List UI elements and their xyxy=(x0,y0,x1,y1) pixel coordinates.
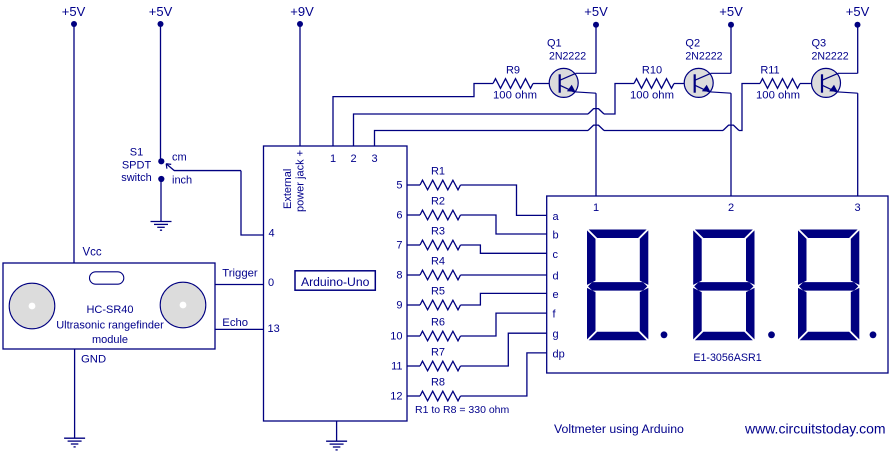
svg-text:1: 1 xyxy=(330,153,336,165)
+5V terminal dot (module Vcc rail) xyxy=(71,21,77,27)
wire Arduino to R5 xyxy=(407,304,420,306)
wire +9V to Arduino power jack xyxy=(299,24,301,146)
svg-text:R5: R5 xyxy=(431,286,445,298)
wire R1 to display segment a xyxy=(461,185,547,215)
svg-text:SPDT: SPDT xyxy=(122,160,152,172)
switch S1 cm contact dot xyxy=(158,158,164,164)
svg-text:R11: R11 xyxy=(760,65,779,77)
module right transducer xyxy=(160,282,206,328)
display digit 2 decimal point xyxy=(768,331,775,338)
wire R6 to display segment f xyxy=(461,313,547,336)
resistor R6 xyxy=(420,331,461,341)
svg-text:b: b xyxy=(553,230,559,242)
wire R8 to display segment dp xyxy=(461,353,547,396)
svg-text:9: 9 xyxy=(396,300,402,312)
wire Arduino to R2 xyxy=(407,214,420,216)
+9V terminal dot xyxy=(297,21,303,27)
resistor R9 xyxy=(493,79,533,89)
svg-text:S1: S1 xyxy=(130,146,143,158)
svg-text:module: module xyxy=(92,334,128,346)
wire inch contact to ground xyxy=(160,179,162,222)
wire Arduino to R3 xyxy=(407,244,420,246)
svg-text:+5V: +5V xyxy=(846,4,870,19)
svg-text:R2: R2 xyxy=(431,196,445,208)
wire R9 to Q1 base xyxy=(533,83,560,85)
svg-text:2: 2 xyxy=(350,153,356,165)
svg-text:+5V: +5V xyxy=(62,4,86,19)
Arduino ground stem xyxy=(336,421,338,441)
svg-text:R7: R7 xyxy=(431,347,445,359)
wire +5V to Q3 collector xyxy=(857,25,859,74)
svg-text:7: 7 xyxy=(396,240,402,252)
svg-text:2: 2 xyxy=(728,202,734,214)
wire Arduino pin 3 to R11 (hops Q1 and Q2 emitters) xyxy=(375,131,589,147)
svg-text:External: External xyxy=(282,169,294,209)
ground (switch) xyxy=(151,221,172,223)
wire Arduino pin 1 to R9 xyxy=(333,84,493,147)
+5V terminal dot (Q3) xyxy=(855,22,861,28)
Arduino-Uno block U1 xyxy=(264,146,408,421)
wire Arduino to R6 xyxy=(407,335,420,337)
wire switch arm to Arduino pin 4 xyxy=(241,171,264,235)
resistor R4 xyxy=(420,270,461,280)
wire Arduino to R1 xyxy=(407,184,420,186)
resistor R7 xyxy=(420,361,461,371)
svg-text:2N2222: 2N2222 xyxy=(812,51,849,63)
display digit 3 decimal point xyxy=(870,331,877,338)
svg-text:www.circuitstoday.com: www.circuitstoday.com xyxy=(744,421,886,437)
svg-text:100 ohm: 100 ohm xyxy=(756,90,800,102)
svg-text:R9: R9 xyxy=(506,65,520,77)
display digit 2 (showing 8) xyxy=(695,230,753,239)
wire Trigger to Arduino pin 0 xyxy=(215,284,264,286)
resistor R5 xyxy=(420,300,461,310)
+5V terminal dot (switch rail) xyxy=(158,21,164,27)
svg-text:R8: R8 xyxy=(431,377,445,389)
resistor R8 xyxy=(420,391,461,401)
wire R10 to Q2 base xyxy=(674,83,695,85)
svg-text:100 ohm: 100 ohm xyxy=(493,90,537,102)
+5V terminal dot (Q1) xyxy=(593,22,599,28)
display digit 1 decimal point xyxy=(661,331,668,338)
wire Arduino to R8 xyxy=(407,395,420,397)
module left transducer xyxy=(9,283,55,329)
svg-text:0: 0 xyxy=(268,277,274,289)
wire R2 to display segment b xyxy=(461,215,547,234)
module crystal capsule xyxy=(90,272,124,284)
svg-text:1: 1 xyxy=(593,202,599,214)
svg-text:12: 12 xyxy=(390,391,402,403)
svg-text:+5V: +5V xyxy=(149,4,173,19)
svg-text:c: c xyxy=(553,249,559,261)
svg-text:g: g xyxy=(553,329,559,341)
switch S1 arm xyxy=(166,164,174,171)
svg-text:Arduino-Uno: Arduino-Uno xyxy=(301,275,370,289)
display digit 3 (showing 8) xyxy=(800,230,858,239)
svg-text:Vcc: Vcc xyxy=(83,247,102,259)
svg-text:2N2222: 2N2222 xyxy=(685,51,722,63)
svg-text:+9V: +9V xyxy=(290,4,314,19)
resistor R3 xyxy=(420,240,461,250)
wire Q2 emitter to display pin 2 xyxy=(730,93,732,196)
module left transducer center dot xyxy=(29,303,36,310)
svg-text:R1: R1 xyxy=(431,166,445,178)
wire Arduino to R4 xyxy=(407,274,420,276)
HC-SR40 module body xyxy=(3,263,215,349)
svg-text:HC-SR40: HC-SR40 xyxy=(86,304,133,316)
svg-text:R10: R10 xyxy=(642,65,662,77)
display digit 1 (showing 8) xyxy=(589,230,647,239)
svg-text:13: 13 xyxy=(268,323,280,335)
switch S1 inch contact dot xyxy=(158,176,164,182)
svg-text:Echo: Echo xyxy=(222,317,248,329)
wire +5V rail to module Vcc xyxy=(73,24,75,263)
svg-text:8: 8 xyxy=(396,270,402,282)
svg-text:dp: dp xyxy=(553,348,565,360)
svg-text:Q3: Q3 xyxy=(812,38,827,50)
svg-text:11: 11 xyxy=(391,361,402,373)
wire R4 to display segment d xyxy=(461,274,547,276)
wire +5V to Q2 collector xyxy=(730,25,732,74)
svg-text:d: d xyxy=(553,271,559,283)
svg-text:power jack +: power jack + xyxy=(295,150,307,212)
module right transducer center dot xyxy=(180,302,187,309)
svg-text:R6: R6 xyxy=(431,317,445,329)
transistor Q2 xyxy=(684,68,713,97)
wire module GND to ground xyxy=(74,349,76,438)
transistor Q3 xyxy=(812,68,841,97)
svg-text:4: 4 xyxy=(269,228,275,240)
transistor Q1 xyxy=(549,68,578,97)
wire Q3 emitter to display pin 3 xyxy=(857,93,859,196)
wire R11 to Q3 base xyxy=(800,83,823,85)
svg-text:switch: switch xyxy=(121,172,152,184)
wire Arduino to R7 xyxy=(407,365,420,367)
wire Echo to Arduino pin 13 xyxy=(215,328,264,330)
svg-text:5: 5 xyxy=(396,180,402,192)
svg-text:+5V: +5V xyxy=(719,4,743,19)
resistor R1 xyxy=(420,180,461,190)
wire R3 to display segment c xyxy=(461,245,547,253)
wire +5V to Q1 collector xyxy=(595,25,597,74)
svg-text:R4: R4 xyxy=(431,256,445,268)
svg-text:Q2: Q2 xyxy=(685,38,700,50)
+5V terminal dot (Q2) xyxy=(728,22,734,28)
svg-text:cm: cm xyxy=(172,151,187,163)
ground (module) xyxy=(64,437,85,439)
resistor R2 xyxy=(420,210,461,220)
Arduino-Uno name box xyxy=(295,271,375,290)
display module E1-3056ASR1 body xyxy=(547,196,888,373)
wire R7 to display segment g xyxy=(461,333,547,366)
svg-text:10: 10 xyxy=(390,331,402,343)
wire Q1 emitter to display pin 1 xyxy=(595,93,597,196)
resistor R11 xyxy=(760,79,800,89)
svg-text:6: 6 xyxy=(396,210,402,222)
ground (Arduino) xyxy=(326,440,347,442)
switch S1 arm arrowhead xyxy=(166,163,171,166)
svg-text:inch: inch xyxy=(172,175,192,187)
svg-text:100 ohm: 100 ohm xyxy=(630,90,674,102)
svg-text:Q1: Q1 xyxy=(547,38,562,50)
svg-text:3: 3 xyxy=(854,202,860,214)
svg-text:e: e xyxy=(553,289,559,301)
wire Arduino pin 2 to R10 (hops Q1 emitter) xyxy=(354,114,589,146)
wire +5V rail to switch common xyxy=(160,24,162,160)
svg-text:Ultrasonic rangefinder: Ultrasonic rangefinder xyxy=(56,320,164,332)
svg-text:Voltmeter using Arduino: Voltmeter using Arduino xyxy=(554,422,684,436)
svg-text:3: 3 xyxy=(371,153,377,165)
svg-text:R3: R3 xyxy=(431,226,445,238)
svg-text:GND: GND xyxy=(81,354,106,366)
svg-text:Trigger: Trigger xyxy=(222,268,258,280)
svg-text:E1-3056ASR1: E1-3056ASR1 xyxy=(693,352,761,364)
svg-text:R1 to R8 = 330 ohm: R1 to R8 = 330 ohm xyxy=(415,404,510,416)
wire R5 to display segment e xyxy=(461,293,547,305)
svg-text:a: a xyxy=(553,211,560,223)
resistor R10 xyxy=(634,79,674,89)
svg-text:2N2222: 2N2222 xyxy=(549,51,586,63)
svg-text:+5V: +5V xyxy=(584,4,608,19)
